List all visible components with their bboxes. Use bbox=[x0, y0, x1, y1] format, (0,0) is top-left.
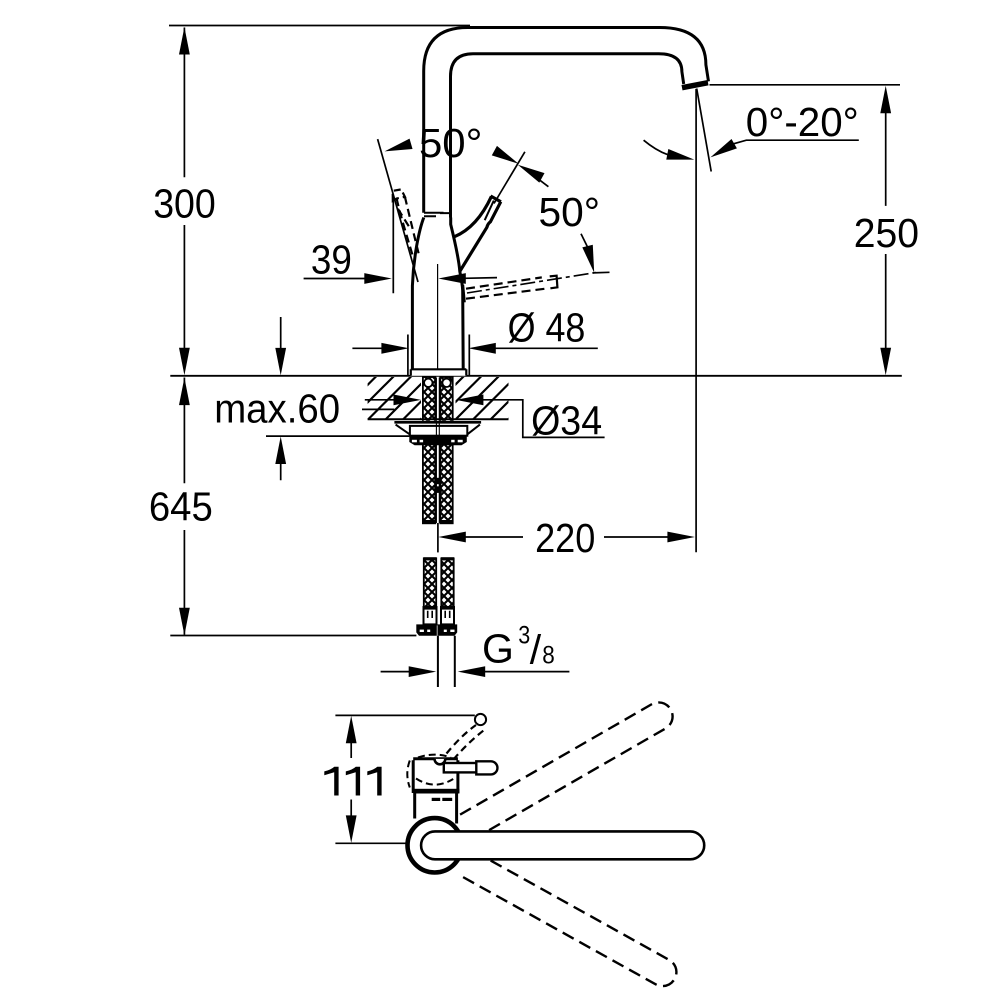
svg-text:50°: 50° bbox=[419, 120, 482, 166]
deck top line bbox=[170, 375, 902, 377]
hose inlet nipples bbox=[424, 379, 451, 387]
svg-text:3: 3 bbox=[518, 621, 530, 649]
spout level reference line bbox=[710, 84, 901, 86]
lever dashed up position top view bbox=[447, 725, 484, 760]
dimension 0-20 deg bbox=[708, 99, 859, 162]
svg-text:8: 8 bbox=[542, 641, 555, 669]
svg-text:0°-20°: 0°-20° bbox=[746, 99, 859, 145]
dimension diameter 48 bbox=[352, 305, 597, 376]
connection nuts bbox=[416, 624, 457, 635]
escutcheon flange bbox=[394, 421, 481, 436]
dimension diameter 34 bbox=[365, 395, 605, 444]
faucet body right contour bbox=[451, 218, 464, 370]
dimension 39 bbox=[304, 197, 497, 294]
lever handle solid bbox=[454, 196, 501, 271]
svg-text:Ø34: Ø34 bbox=[531, 398, 602, 444]
tilt swivel arc arrow bbox=[644, 140, 696, 165]
dimension 645 bbox=[149, 378, 417, 636]
spout pipe outer contour bbox=[424, 28, 709, 213]
dimension 250 bbox=[854, 86, 919, 376]
dimension 111 bbox=[324, 715, 475, 843]
lever handle dashed up position bbox=[393, 189, 420, 258]
spout arm solid bbox=[421, 831, 704, 859]
wire center supply lines bbox=[436, 378, 439, 524]
lever rod top view bbox=[444, 761, 498, 774]
dimension G 3/8 bbox=[381, 621, 570, 677]
spout tilt 20 deg line bbox=[697, 89, 712, 172]
countertop hatched section bbox=[368, 377, 509, 419]
svg-text:220: 220 bbox=[535, 515, 595, 561]
dimension max.60 bbox=[214, 317, 409, 480]
svg-text:250: 250 bbox=[854, 210, 919, 256]
body collar joint bbox=[424, 213, 451, 217]
svg-text:645: 645 bbox=[149, 484, 213, 530]
water stream center line bbox=[695, 89, 697, 552]
mounting collar bbox=[410, 426, 467, 436]
svg-text:G: G bbox=[482, 626, 514, 672]
node top reference line bbox=[169, 25, 470, 27]
dimension 220 bbox=[438, 515, 695, 561]
dimension 50 deg handle upper bbox=[378, 120, 483, 282]
lever pivot dome top view bbox=[435, 759, 446, 764]
svg-text:39: 39 bbox=[311, 237, 352, 283]
spout outlet mouth bbox=[682, 83, 708, 88]
swivel base ring bbox=[408, 818, 462, 872]
svg-text:/: / bbox=[530, 626, 542, 672]
braided hose lower section bbox=[423, 557, 454, 607]
dimension 50 deg handle lower bbox=[492, 146, 610, 274]
svg-text:50°: 50° bbox=[539, 189, 601, 235]
spout arm dashed lower position bbox=[460, 851, 681, 990]
mounting nut bbox=[409, 436, 467, 446]
lever knob circle top view bbox=[475, 714, 486, 725]
braided hose upper section bbox=[423, 377, 454, 524]
dashed arcs lever positions top view bbox=[407, 755, 453, 788]
supply tail pipe G3/8 bbox=[438, 636, 455, 687]
body center line bbox=[437, 264, 439, 369]
svg-text:max.60: max.60 bbox=[214, 385, 340, 431]
svg-text:300: 300 bbox=[153, 181, 216, 227]
spout pipe inner contour bbox=[451, 54, 684, 218]
spout arm dashed upper position bbox=[460, 697, 678, 839]
hose mid connector bbox=[434, 478, 442, 493]
svg-text:Ø 48: Ø 48 bbox=[508, 305, 586, 351]
hose end fittings bbox=[424, 606, 455, 624]
body top view bbox=[413, 759, 459, 824]
lever handle phantom down position bbox=[463, 273, 596, 303]
faucet body left contour bbox=[412, 218, 423, 370]
body base flange bbox=[411, 369, 467, 376]
dimension 300 bbox=[153, 27, 216, 375]
